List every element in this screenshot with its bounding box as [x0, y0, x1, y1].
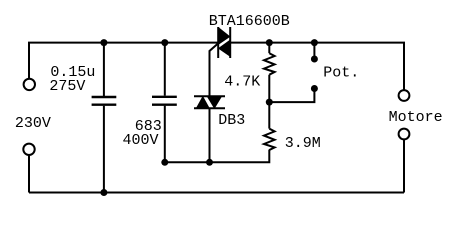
wire R2 top lead from junction	[268, 102, 270, 129]
triac U1 upper triangle	[219, 28, 230, 44]
wire mid rail from C2 to 3.9M resistor	[165, 150, 269, 163]
triac U1 BTA16600B left bar	[217, 27, 219, 58]
wire R1 top lead	[268, 43, 270, 54]
resistor R2 3.9M zigzag	[264, 129, 275, 150]
junction dot R1/R2/pot node	[266, 99, 273, 106]
junction dot mid rail diac	[206, 159, 213, 166]
label Motore	[389, 109, 443, 126]
junction dot top rail C1	[100, 39, 107, 46]
wire left vertical below 230V terminal	[28, 155, 30, 192]
wire C2 top lead	[164, 43, 166, 96]
label 230V	[15, 115, 51, 132]
label 4.7K	[224, 73, 260, 90]
svg-text:BTA16600B: BTA16600B	[209, 13, 290, 30]
svg-text:275V: 275V	[49, 78, 85, 95]
label 275V	[49, 78, 85, 95]
svg-text:3.9M: 3.9M	[285, 135, 321, 152]
potentiometer upper contact dot	[311, 56, 318, 63]
diac DB3 left up triangle	[197, 97, 209, 108]
diac DB3 right down triangle	[208, 97, 222, 108]
label 3.9M	[285, 135, 321, 152]
svg-text:DB3: DB3	[218, 112, 245, 129]
junction dot top rail C2	[161, 39, 168, 46]
wire diac top lead / triac gate	[210, 44, 219, 97]
label DB3	[218, 112, 245, 129]
wire top rail left of triac	[29, 43, 218, 79]
terminal 230V top	[24, 79, 35, 90]
capacitor C1 0.15u plates	[92, 97, 117, 105]
junction dot bottom rail C1	[100, 189, 107, 196]
potentiometer lower contact dot	[311, 85, 318, 92]
wire C1 top lead	[103, 43, 105, 96]
terminal motor bottom	[399, 129, 410, 140]
resistor R1 4.7K zigzag	[264, 53, 275, 74]
svg-text:Motore: Motore	[389, 109, 443, 126]
terminal 230V bottom	[23, 144, 34, 155]
label 683	[135, 118, 162, 135]
diac DB3 top bar	[194, 95, 225, 97]
svg-text:4.7K: 4.7K	[224, 73, 260, 90]
wire bottom rail	[29, 192, 404, 194]
capacitor C2 683 plates	[152, 97, 177, 105]
wire right vertical below motor terminal	[403, 140, 405, 193]
label BTA16600B	[209, 13, 290, 30]
svg-text:230V: 230V	[15, 115, 51, 132]
diac DB3 bottom bar	[194, 107, 225, 109]
label 400V	[123, 132, 159, 149]
wire pot lower arm to junction node	[269, 89, 314, 103]
wire diac bottom lead	[209, 109, 211, 163]
wire C2 bottom lead	[164, 106, 166, 163]
triac U1 lower triangle	[219, 41, 230, 56]
svg-text:400V: 400V	[123, 132, 159, 149]
svg-text:Pot.: Pot.	[323, 64, 359, 81]
wire pot top stub	[313, 43, 315, 59]
junction dot top rail R1	[266, 39, 273, 46]
label 0.15u	[50, 64, 95, 81]
wire R1 bottom lead	[268, 75, 270, 102]
triac U1 BTA16600B right bar	[229, 27, 231, 58]
junction dot top rail pot	[311, 39, 318, 46]
wire C1 bottom lead to bottom rail	[103, 106, 105, 193]
label Pot.	[323, 64, 359, 81]
junction dot mid rail C2	[161, 159, 168, 166]
wire top rail right of triac to motor terminal	[230, 43, 404, 90]
terminal motor top	[399, 90, 410, 101]
